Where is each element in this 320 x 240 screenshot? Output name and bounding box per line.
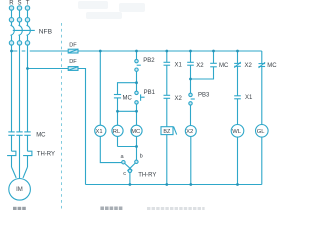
- wire PB2 out: [136, 71, 138, 91]
- svg-text:MC: MC: [267, 63, 277, 69]
- svg-text:X1: X1: [96, 129, 103, 135]
- wire WL branch: [237, 51, 239, 63]
- motor IM: [9, 179, 31, 201]
- wire to X1 contact: [237, 66, 239, 95]
- wire GL branch: [261, 51, 263, 63]
- wire RL bottom: [117, 136, 119, 146]
- caption main circuit (clipped): [13, 207, 26, 210]
- wire S below MC: [19, 135, 21, 178]
- lamp WL: [231, 125, 244, 138]
- NFB link bar: [13, 29, 35, 31]
- wire X1 coil to a: [100, 136, 121, 162]
- coil X1: [95, 125, 106, 136]
- NFB pole arc R: [11, 25, 15, 35]
- svg-text:TH-RY: TH-RY: [37, 151, 55, 157]
- wire T tap to DF2: [28, 68, 69, 70]
- MC main contact T: [24, 132, 30, 135]
- coil X2: [185, 126, 196, 137]
- svg-text:BZ: BZ: [163, 129, 171, 135]
- wire WL to bottom rail: [237, 137, 239, 184]
- wire R phase main: [11, 45, 13, 132]
- wire MC hold bottom: [117, 98, 119, 111]
- wire to BZ: [166, 98, 168, 126]
- fuse DF2: [68, 67, 78, 71]
- wire RL drop: [117, 111, 119, 125]
- wire BZ to bottom rail: [166, 135, 168, 185]
- wire to WL: [237, 99, 239, 125]
- TH-RY heater R: [7, 151, 16, 167]
- pushbutton PB2: [135, 59, 141, 71]
- wire PB3 to X2 coil: [190, 105, 192, 126]
- pushbutton PB1: [135, 91, 145, 104]
- caption right faint: [147, 207, 205, 210]
- watermark faint: [78, 1, 145, 19]
- svg-text:MC: MC: [131, 129, 140, 135]
- NFB lower terminal R: [9, 41, 13, 45]
- NFB lower terminal T: [25, 41, 29, 45]
- contact X1 (BZ branch): [164, 62, 171, 65]
- contact X2 (BZ branch): [164, 95, 171, 98]
- svg-text:X2: X2: [196, 63, 204, 69]
- TH-RY contact c: [128, 169, 131, 172]
- wire R phase top: [11, 10, 13, 17]
- wire funnel right to motor: [23, 167, 28, 178]
- svg-text:NFB: NFB: [39, 29, 53, 36]
- contact MC hold: [114, 95, 121, 98]
- svg-text:DF: DF: [69, 42, 77, 48]
- svg-text:GL: GL: [257, 129, 266, 135]
- fuse DF1: [68, 49, 78, 53]
- wire PB1 out: [136, 104, 138, 111]
- svg-text:T: T: [26, 0, 30, 6]
- caption control circuit (clipped): [100, 207, 122, 211]
- wire MC hold branch top: [118, 83, 137, 95]
- contact MC NC (GL branch): [259, 62, 266, 68]
- lamp GL: [255, 125, 268, 138]
- NFB pole arc S: [19, 25, 23, 35]
- svg-text:DF: DF: [69, 59, 77, 65]
- coil MC: [131, 125, 142, 136]
- wire X2 contact branch: [190, 51, 192, 62]
- svg-text:c: c: [123, 171, 126, 177]
- wire to GL: [261, 67, 263, 125]
- wire X2 coil to bottom rail: [190, 137, 192, 185]
- wire X1 coil branch: [99, 51, 101, 125]
- svg-text:RL: RL: [113, 129, 121, 135]
- svg-text:MC: MC: [219, 63, 229, 69]
- svg-text:WL: WL: [232, 129, 241, 135]
- TH-RY blade b-c: [127, 163, 135, 171]
- wire junction to PB3: [190, 79, 192, 93]
- NFB lower terminal S: [17, 41, 21, 45]
- wire junction bar y111: [118, 110, 137, 112]
- svg-text:X1: X1: [245, 95, 253, 101]
- NFB pole arc T: [27, 25, 31, 35]
- coil RL: [112, 125, 123, 136]
- contact X1 (WL branch): [234, 96, 241, 99]
- wire coil bracket: [118, 146, 137, 148]
- wire MC coil bottom: [136, 136, 138, 146]
- NFB upper terminal T: [25, 18, 29, 22]
- wire X2 contact to junction: [190, 65, 192, 79]
- svg-text:PB3: PB3: [198, 92, 210, 98]
- terminal T: [25, 6, 29, 10]
- contact X2 NC (WL branch): [234, 62, 241, 68]
- wire R below MC: [11, 135, 13, 151]
- terminal S: [17, 6, 21, 10]
- wire R tap to DF1: [12, 50, 69, 52]
- svg-text:b: b: [140, 153, 143, 159]
- TH-RY heater T: [23, 151, 32, 167]
- pushbutton PB3: [189, 93, 195, 105]
- MC main contact R: [8, 132, 14, 135]
- svg-text:TH-RY: TH-RY: [138, 172, 156, 178]
- NFB upper terminal S: [17, 18, 21, 22]
- svg-text:X2: X2: [245, 63, 253, 69]
- buzzer BZ: [161, 127, 177, 135]
- wire PB2 branch: [136, 51, 138, 60]
- TH-RY blade a-c: [125, 163, 133, 170]
- TH-RY contact a: [122, 161, 125, 164]
- svg-text:S: S: [18, 0, 22, 6]
- wire MC coil drop: [136, 111, 138, 125]
- wire T phase top: [27, 10, 29, 17]
- svg-text:MC: MC: [36, 133, 46, 139]
- wire S phase top: [19, 10, 21, 17]
- wire DF2 to bottom rail: [78, 69, 86, 185]
- wire S phase main: [19, 45, 21, 132]
- wire funnel left to motor: [12, 167, 17, 178]
- wire b drop: [136, 147, 138, 161]
- TH-RY contact b: [135, 160, 138, 163]
- wire MC parallel top: [213, 51, 215, 63]
- svg-text:PB2: PB2: [143, 58, 155, 64]
- svg-text:X2: X2: [175, 96, 183, 102]
- svg-text:IM: IM: [16, 187, 23, 193]
- MC main contact S: [16, 132, 22, 135]
- bottom rail: [86, 184, 262, 186]
- svg-text:R: R: [9, 0, 14, 6]
- wire X1 contact branch: [166, 51, 168, 62]
- dashed separator line: [61, 23, 63, 209]
- wire T phase main: [27, 45, 29, 132]
- wire c to bottom rail: [129, 173, 131, 185]
- wire GL to bottom rail: [261, 137, 263, 184]
- svg-text:MC: MC: [123, 96, 133, 102]
- top rail: [78, 50, 262, 52]
- wire to X2 contact: [166, 65, 168, 95]
- terminal R: [9, 6, 13, 10]
- NFB stubs: [11, 22, 13, 25]
- wire MC parallel branch: [191, 67, 214, 79]
- contact X2 (coil branch): [187, 62, 194, 65]
- NFB upper terminal R: [9, 18, 13, 22]
- svg-text:X2: X2: [186, 129, 193, 135]
- wire T below MC: [27, 135, 29, 151]
- svg-text:PB1: PB1: [144, 90, 156, 96]
- svg-text:X1: X1: [175, 63, 183, 69]
- contact MC (parallel PB3): [210, 63, 217, 67]
